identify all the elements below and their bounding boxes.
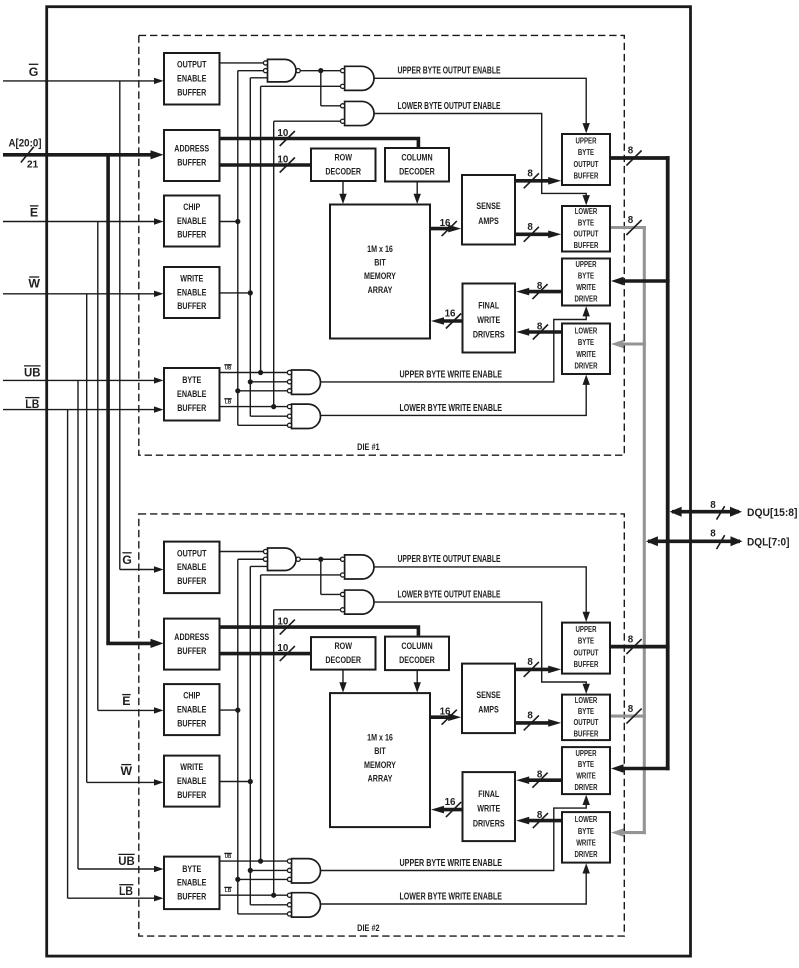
svg-text:OUTPUT: OUTPUT xyxy=(177,547,207,558)
wire column decoder to memory array DIE #2 xyxy=(414,670,421,693)
svg-text:LOWER: LOWER xyxy=(575,815,598,824)
block FINAL WRITE DRIVERS DIE #1 xyxy=(463,284,516,353)
svg-text:UPPER BYTE WRITE ENABLE: UPPER BYTE WRITE ENABLE xyxy=(400,858,503,869)
label W-bar at DIE 2 xyxy=(120,764,132,778)
block WRITE ENABLE BUFFER DIE #2 xyxy=(164,756,220,807)
svg-text:WRITE: WRITE xyxy=(180,761,203,772)
label LB-bar at DIE 2 xyxy=(119,884,133,898)
svg-text:10: 10 xyxy=(277,154,288,165)
wire row decoder to memory array DIE #2 xyxy=(339,670,346,693)
svg-text:ENABLE: ENABLE xyxy=(177,286,206,297)
wire NAND output node DIE #2 xyxy=(300,559,342,594)
junction NAND output DIE #1 xyxy=(318,68,323,73)
svg-text:LOWER: LOWER xyxy=(575,326,598,335)
svg-text:21: 21 xyxy=(27,160,39,171)
bus upper byte write driver DIE #2 feed (black) xyxy=(611,764,670,772)
bus 8 upper byte write driver to final write drivers DIE #1 xyxy=(516,281,562,299)
svg-text:DRIVER: DRIVER xyxy=(575,362,598,371)
wire/net write-enable vertical DIE #2 xyxy=(250,566,287,904)
svg-text:UB: UB xyxy=(225,366,232,372)
block UPPER BYTE OUTPUT BUFFER DIE #2 xyxy=(562,623,610,674)
svg-text:BUFFER: BUFFER xyxy=(574,172,599,181)
svg-text:DIE #2: DIE #2 xyxy=(357,923,380,934)
bus DQ upper-byte vertical (black) xyxy=(666,156,670,770)
block BYTE ENABLE BUFFER DIE #2 xyxy=(164,857,220,910)
wire UPPER BYTE WRITE ENABLE DIE #2 xyxy=(321,795,590,871)
bus 8 sense amps to lower byte output buffer DIE #1 xyxy=(515,222,561,242)
svg-text:BUFFER: BUFFER xyxy=(177,402,206,413)
wire LOWER BYTE WRITE ENABLE DIE #1 xyxy=(321,375,590,416)
junction NAND output DIE #2 xyxy=(318,557,323,562)
bus 16 final write drivers to memory array DIE #1 xyxy=(431,308,463,328)
svg-text:ENABLE: ENABLE xyxy=(177,877,206,888)
wire byte enable buffer LB-bar output DIE #1 xyxy=(220,406,288,408)
svg-text:8: 8 xyxy=(537,770,543,781)
svg-text:10: 10 xyxy=(277,616,288,627)
AND gate upper byte output enable DIE #1 xyxy=(341,66,374,90)
svg-text:BUFFER: BUFFER xyxy=(177,86,206,97)
svg-text:DRIVERS: DRIVERS xyxy=(473,817,505,828)
wire UB-bar tap to DIE 2 xyxy=(78,380,164,872)
svg-text:8: 8 xyxy=(527,657,533,668)
svg-text:ENABLE: ENABLE xyxy=(177,561,206,572)
wire byte enable buffer LB-bar output DIE #2 xyxy=(220,894,288,896)
svg-text:ARRAY: ARRAY xyxy=(368,772,393,783)
block LOWER BYTE WRITE DRIVER DIE #1 xyxy=(562,324,610,375)
svg-text:1M x 16: 1M x 16 xyxy=(367,731,393,742)
svg-text:W: W xyxy=(120,764,132,778)
svg-text:LOWER: LOWER xyxy=(575,696,598,705)
dashed die boundary DIE #1 xyxy=(139,35,625,455)
AND gate lower byte output enable DIE #1 xyxy=(341,101,375,125)
svg-text:WRITE: WRITE xyxy=(576,772,596,781)
AND gate lower byte write enable DIE #1 xyxy=(287,404,320,428)
block OUTPUT ENABLE BUFFER DIE #2 xyxy=(164,542,220,594)
bus 8 lower byte write driver to final write drivers DIE #1 xyxy=(516,322,562,340)
svg-text:BYTE: BYTE xyxy=(578,760,594,769)
svg-text:ENABLE: ENABLE xyxy=(177,215,206,226)
svg-text:COLUMN: COLUMN xyxy=(401,640,432,651)
svg-text:COLUMN: COLUMN xyxy=(401,152,432,163)
svg-text:BIT: BIT xyxy=(374,256,386,267)
input A[20:0] label xyxy=(9,137,42,149)
wire/net chip-enable vertical DIE #1 xyxy=(238,71,288,426)
svg-text:G: G xyxy=(29,65,39,79)
svg-text:AMPS: AMPS xyxy=(478,215,499,226)
svg-text:8: 8 xyxy=(628,704,634,715)
svg-text:SENSE: SENSE xyxy=(476,200,500,211)
wire/net LB-bar vertical DIE #1 xyxy=(274,121,343,406)
junction LB-bar DIE #2 xyxy=(271,893,276,898)
svg-text:WRITE: WRITE xyxy=(576,350,596,359)
svg-text:BUFFER: BUFFER xyxy=(177,229,206,240)
input G-bar label xyxy=(29,64,39,79)
svg-text:LOWER BYTE OUTPUT ENABLE: LOWER BYTE OUTPUT ENABLE xyxy=(398,101,501,112)
svg-text:BUFFER: BUFFER xyxy=(574,660,599,669)
bus DQL[7:0] bidirectional arrow xyxy=(646,529,743,549)
junction UB-bar DIE #2 xyxy=(258,859,263,864)
svg-text:W: W xyxy=(28,276,40,290)
svg-text:ADDRESS: ADDRESS xyxy=(174,142,209,153)
svg-text:DRIVER: DRIVER xyxy=(575,783,598,792)
svg-text:UPPER: UPPER xyxy=(576,260,597,269)
NAND gate (output/chip/write enables) DIE #1 xyxy=(263,59,300,82)
wire W-bar tap to DIE 2 xyxy=(87,294,164,786)
svg-text:FINAL: FINAL xyxy=(478,299,499,310)
block LOWER BYTE OUTPUT BUFFER DIE #2 xyxy=(562,695,610,741)
svg-text:OUTPUT: OUTPUT xyxy=(574,718,599,727)
wire LB-bar input xyxy=(3,406,164,412)
svg-text:OUTPUT: OUTPUT xyxy=(574,648,599,657)
label UB-bar pin DIE #2 xyxy=(224,853,231,860)
block OUTPUT ENABLE BUFFER DIE #1 xyxy=(164,53,220,105)
bus address 10 to row decoder DIE #2 xyxy=(220,643,312,661)
wire LOWER BYTE OUTPUT ENABLE DIE #1 xyxy=(374,114,590,206)
AND gate upper byte write enable DIE #1 xyxy=(287,370,320,394)
bus 8 upper byte output buffer DIE #1 to DQ (black) xyxy=(610,146,670,166)
svg-text:8: 8 xyxy=(527,711,533,722)
input W-bar label xyxy=(28,276,40,290)
svg-text:OUTPUT: OUTPUT xyxy=(574,160,599,169)
block ADDRESS BUFFER DIE #1 xyxy=(164,130,220,181)
block 1M x 16 BIT MEMORY ARRAY DIE #1 xyxy=(330,205,430,339)
svg-text:BUFFER: BUFFER xyxy=(574,729,599,738)
bus 8 sense amps to lower byte output buffer DIE #2 xyxy=(515,711,561,731)
svg-text:16: 16 xyxy=(440,707,451,718)
svg-text:UPPER BYTE WRITE ENABLE: UPPER BYTE WRITE ENABLE xyxy=(400,369,503,380)
bus A[20:0] input, width 21 xyxy=(3,147,164,171)
block UPPER BYTE WRITE DRIVER DIE #1 xyxy=(562,259,610,306)
bus 8 sense amps to upper byte output buffer DIE #1 xyxy=(515,168,561,188)
svg-text:BUFFER: BUFFER xyxy=(177,300,206,311)
svg-text:BYTE: BYTE xyxy=(182,374,201,385)
wire UPPER BYTE OUTPUT ENABLE DIE #1 xyxy=(374,78,590,133)
svg-text:BUFFER: BUFFER xyxy=(177,575,206,586)
block CHIP ENABLE BUFFER DIE #1 xyxy=(164,196,220,247)
svg-text:BYTE: BYTE xyxy=(578,338,594,347)
junction UB-bar DIE #1 xyxy=(258,370,263,375)
svg-text:8: 8 xyxy=(537,322,543,333)
junction chip-enable at buffer output DIE #2 xyxy=(235,708,240,713)
svg-text:DECODER: DECODER xyxy=(325,166,361,177)
bus DQ lower-byte vertical (gray) xyxy=(643,226,646,834)
bus 8 lower byte output buffer DIE #2 to DQ (gray) xyxy=(610,704,646,724)
wire column decoder to memory array DIE #1 xyxy=(414,182,421,205)
svg-text:DIE #1: DIE #1 xyxy=(357,442,380,453)
block SENSE AMPS DIE #2 xyxy=(462,664,515,734)
svg-text:OUTPUT: OUTPUT xyxy=(177,59,207,70)
block SENSE AMPS DIE #1 xyxy=(462,175,515,245)
wire G-bar input xyxy=(3,78,164,84)
svg-text:UPPER: UPPER xyxy=(576,749,597,758)
junction chip-enable at buffer output DIE #1 xyxy=(235,219,240,224)
svg-text:8: 8 xyxy=(527,168,533,179)
wire UPPER BYTE OUTPUT ENABLE DIE #2 xyxy=(374,567,590,622)
block UPPER BYTE OUTPUT BUFFER DIE #1 xyxy=(562,134,610,185)
block LOWER BYTE OUTPUT BUFFER DIE #1 xyxy=(562,206,610,252)
svg-text:DRIVER: DRIVER xyxy=(575,850,598,859)
block FINAL WRITE DRIVERS DIE #2 xyxy=(463,772,516,841)
svg-text:DQL[7:0]: DQL[7:0] xyxy=(747,536,790,548)
junction write-enable at buffer output DIE #2 xyxy=(248,779,253,784)
svg-text:BYTE: BYTE xyxy=(578,148,594,157)
svg-text:16: 16 xyxy=(445,797,456,808)
wire G-bar tap to DIE 2 xyxy=(120,81,164,573)
wire byte enable buffer UB-bar output DIE #1 xyxy=(220,372,288,374)
svg-text:LB: LB xyxy=(225,888,232,894)
block CHIP ENABLE BUFFER DIE #2 xyxy=(164,684,220,735)
svg-text:BYTE: BYTE xyxy=(578,827,594,836)
svg-text:DECODER: DECODER xyxy=(325,654,361,665)
svg-text:BUFFER: BUFFER xyxy=(177,645,206,656)
svg-text:BYTE: BYTE xyxy=(578,218,594,227)
svg-text:CHIP: CHIP xyxy=(183,690,200,701)
svg-text:BUFFER: BUFFER xyxy=(177,789,206,800)
svg-text:LOWER BYTE WRITE ENABLE: LOWER BYTE WRITE ENABLE xyxy=(400,892,503,903)
block LOWER BYTE WRITE DRIVER DIE #2 xyxy=(562,812,610,863)
bus 16 memory array to sense amps DIE #1 xyxy=(430,218,461,236)
block BYTE ENABLE BUFFER DIE #1 xyxy=(164,368,220,421)
wire chip enable buffer output DIE #2 xyxy=(220,709,238,711)
svg-text:UPPER: UPPER xyxy=(576,625,597,634)
svg-text:LOWER BYTE OUTPUT ENABLE: LOWER BYTE OUTPUT ENABLE xyxy=(398,589,501,600)
block 1M x 16 BIT MEMORY ARRAY DIE #2 xyxy=(330,693,430,827)
svg-text:DECODER: DECODER xyxy=(399,166,435,177)
block ADDRESS BUFFER DIE #2 xyxy=(164,619,220,670)
input LB-bar label xyxy=(25,397,39,411)
wire byte enable buffer UB-bar output DIE #2 xyxy=(220,860,288,862)
wire output enable buffer to NAND DIE #1 xyxy=(220,62,264,64)
bus 8 lower byte output buffer DIE #1 to DQ (gray) xyxy=(610,215,646,235)
block UPPER BYTE WRITE DRIVER DIE #2 xyxy=(562,747,610,794)
svg-text:ENABLE: ENABLE xyxy=(177,388,206,399)
svg-text:BUFFER: BUFFER xyxy=(177,891,206,902)
svg-text:BYTE: BYTE xyxy=(578,637,594,646)
svg-text:MEMORY: MEMORY xyxy=(364,759,396,770)
wire E-bar input xyxy=(3,218,164,224)
svg-text:ROW: ROW xyxy=(335,152,353,163)
svg-text:BUFFER: BUFFER xyxy=(177,156,206,167)
svg-text:UPPER BYTE OUTPUT ENABLE: UPPER BYTE OUTPUT ENABLE xyxy=(398,554,501,565)
bus 16 memory array to sense amps DIE #2 xyxy=(430,707,461,725)
wire row decoder to memory array DIE #1 xyxy=(339,181,346,204)
wire write enable buffer output DIE #1 xyxy=(220,292,251,294)
svg-text:UB: UB xyxy=(225,854,232,860)
input E-bar label xyxy=(30,206,39,220)
svg-text:WRITE: WRITE xyxy=(576,838,596,847)
wire UPPER BYTE WRITE ENABLE DIE #1 xyxy=(321,306,590,382)
svg-text:A[20:0]: A[20:0] xyxy=(9,137,42,149)
svg-text:16: 16 xyxy=(440,218,451,229)
svg-text:UPPER BYTE OUTPUT ENABLE: UPPER BYTE OUTPUT ENABLE xyxy=(398,66,501,77)
svg-text:OUTPUT: OUTPUT xyxy=(574,230,599,239)
wire/net chip-enable vertical DIE #2 xyxy=(238,559,288,914)
bus A[20:0] tap to DIE 2 xyxy=(106,155,163,648)
junction write-enable at buffer output DIE #1 xyxy=(248,290,253,295)
junction LB-bar DIE #1 xyxy=(271,404,276,409)
svg-text:ARRAY: ARRAY xyxy=(368,284,393,295)
AND gate lower byte output enable DIE #2 xyxy=(341,590,374,614)
wire LB-bar tap to DIE 2 xyxy=(68,410,164,902)
svg-text:16: 16 xyxy=(445,308,456,319)
bus 8 upper byte write driver to final write drivers DIE #2 xyxy=(516,770,562,788)
wire/net UB-bar vertical DIE #2 xyxy=(261,575,343,861)
svg-text:UPPER: UPPER xyxy=(576,136,597,145)
label E-bar at DIE 2 xyxy=(122,694,131,708)
wire UB-bar input xyxy=(3,377,164,383)
svg-text:BUFFER: BUFFER xyxy=(177,717,206,728)
AND gate lower byte write enable DIE #2 xyxy=(287,893,320,917)
svg-text:CHIP: CHIP xyxy=(183,201,200,212)
label UB-bar at DIE 2 xyxy=(118,854,135,868)
svg-text:LOWER: LOWER xyxy=(575,207,598,216)
wire LOWER BYTE OUTPUT ENABLE DIE #2 xyxy=(374,602,590,694)
wire E-bar tap to DIE 2 xyxy=(98,222,164,714)
svg-text:BIT: BIT xyxy=(374,745,386,756)
block COLUMN DECODER DIE #2 xyxy=(385,637,449,671)
wire/net write-enable vertical DIE #1 xyxy=(250,78,287,416)
svg-text:UB: UB xyxy=(118,854,135,868)
svg-text:AMPS: AMPS xyxy=(478,703,499,714)
svg-text:8: 8 xyxy=(628,146,634,157)
svg-text:8: 8 xyxy=(710,529,716,540)
label LB-bar pin DIE #1 xyxy=(224,399,231,406)
bus address 10 to column decoder DIE #2 xyxy=(220,616,419,635)
junction chip-enable to upper write gate DIE #1 xyxy=(235,388,240,393)
NAND gate (output/chip/write enables) DIE #2 xyxy=(263,548,300,571)
wire chip enable buffer output DIE #1 xyxy=(220,221,238,223)
svg-text:LOWER BYTE WRITE ENABLE: LOWER BYTE WRITE ENABLE xyxy=(400,403,503,414)
block COLUMN DECODER DIE #1 xyxy=(385,148,449,182)
svg-text:8: 8 xyxy=(537,810,543,821)
svg-text:UB: UB xyxy=(24,366,41,380)
chip outline frame xyxy=(47,7,691,956)
svg-text:1M x 16: 1M x 16 xyxy=(367,243,393,254)
label UB-bar pin DIE #1 xyxy=(224,365,231,372)
label LB-bar pin DIE #2 xyxy=(224,887,231,894)
wire/net UB-bar vertical DIE #1 xyxy=(261,86,343,372)
wire W-bar input xyxy=(3,291,164,297)
svg-text:8: 8 xyxy=(527,222,533,233)
junction write-enable to upper write gate DIE #2 xyxy=(248,868,253,873)
wire output enable buffer to NAND DIE #2 xyxy=(220,551,264,553)
svg-text:MEMORY: MEMORY xyxy=(364,270,396,281)
block WRITE ENABLE BUFFER DIE #1 xyxy=(164,267,220,318)
svg-text:8: 8 xyxy=(710,500,716,511)
svg-text:G: G xyxy=(122,553,132,567)
wire NAND output node DIE #1 xyxy=(300,71,342,106)
svg-text:DQU[15:8]: DQU[15:8] xyxy=(747,507,798,519)
svg-text:ROW: ROW xyxy=(335,640,353,651)
label G-bar at DIE 2 xyxy=(122,553,132,567)
svg-text:WRITE: WRITE xyxy=(477,803,500,814)
bus lower byte write driver DIE #2 feed (gray) xyxy=(611,828,646,836)
junction write-enable to upper write gate DIE #1 xyxy=(248,379,253,384)
svg-text:8: 8 xyxy=(628,215,634,226)
svg-text:LB: LB xyxy=(119,884,133,898)
svg-text:LB: LB xyxy=(225,399,232,405)
bus 16 final write drivers to memory array DIE #2 xyxy=(431,797,463,817)
svg-text:WRITE: WRITE xyxy=(477,314,500,325)
block ROW DECODER DIE #2 xyxy=(311,637,376,670)
svg-text:SENSE: SENSE xyxy=(476,689,500,700)
bus 8 lower byte write driver to final write drivers DIE #2 xyxy=(516,810,562,828)
bus upper byte write driver DIE #1 feed (black) xyxy=(611,277,670,285)
svg-text:10: 10 xyxy=(277,643,288,654)
svg-text:BYTE: BYTE xyxy=(578,272,594,281)
wire LOWER BYTE WRITE ENABLE DIE #2 xyxy=(321,863,590,904)
bus DQU[15:8] bidirectional arrow xyxy=(670,500,742,520)
wire write enable buffer output DIE #2 xyxy=(220,781,251,783)
bus address 10 to row decoder DIE #1 xyxy=(220,154,312,172)
svg-text:ENABLE: ENABLE xyxy=(177,73,206,84)
svg-text:BYTE: BYTE xyxy=(578,707,594,716)
bus 8 upper byte output buffer DIE #2 to DQ (black) xyxy=(610,634,670,654)
svg-text:ENABLE: ENABLE xyxy=(177,775,206,786)
svg-text:ADDRESS: ADDRESS xyxy=(174,631,209,642)
svg-text:FINAL: FINAL xyxy=(478,788,499,799)
svg-text:DRIVERS: DRIVERS xyxy=(473,329,505,340)
svg-text:WRITE: WRITE xyxy=(576,283,596,292)
svg-text:DRIVER: DRIVER xyxy=(575,294,598,303)
bus address 10 to column decoder DIE #1 xyxy=(220,128,419,147)
bus 8 sense amps to upper byte output buffer DIE #2 xyxy=(515,657,561,677)
svg-text:BYTE: BYTE xyxy=(182,863,201,874)
AND gate upper byte write enable DIE #2 xyxy=(287,859,320,883)
junction chip-enable to upper write gate DIE #2 xyxy=(235,877,240,882)
block ROW DECODER DIE #1 xyxy=(311,149,376,182)
input UB-bar label xyxy=(24,366,41,380)
svg-text:8: 8 xyxy=(628,634,634,645)
wire/net LB-bar vertical DIE #2 xyxy=(274,610,343,895)
svg-text:E: E xyxy=(30,206,38,220)
svg-text:10: 10 xyxy=(277,128,288,139)
dashed die boundary DIE #2 xyxy=(139,514,625,936)
svg-text:DECODER: DECODER xyxy=(399,654,435,665)
svg-text:E: E xyxy=(122,694,130,708)
svg-text:ENABLE: ENABLE xyxy=(177,703,206,714)
bus lower byte write driver DIE #1 feed (gray) xyxy=(611,340,646,348)
svg-text:BUFFER: BUFFER xyxy=(574,241,599,250)
svg-text:8: 8 xyxy=(537,281,543,292)
AND gate upper byte output enable DIE #2 xyxy=(341,555,374,579)
svg-text:WRITE: WRITE xyxy=(180,272,203,283)
